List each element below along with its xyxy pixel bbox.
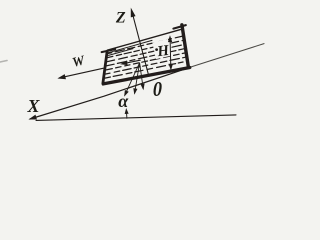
svg-text:X: X <box>26 96 40 116</box>
svg-text:α: α <box>118 91 129 111</box>
svg-text:0: 0 <box>153 78 162 102</box>
svg-text:Z: Z <box>115 10 126 27</box>
